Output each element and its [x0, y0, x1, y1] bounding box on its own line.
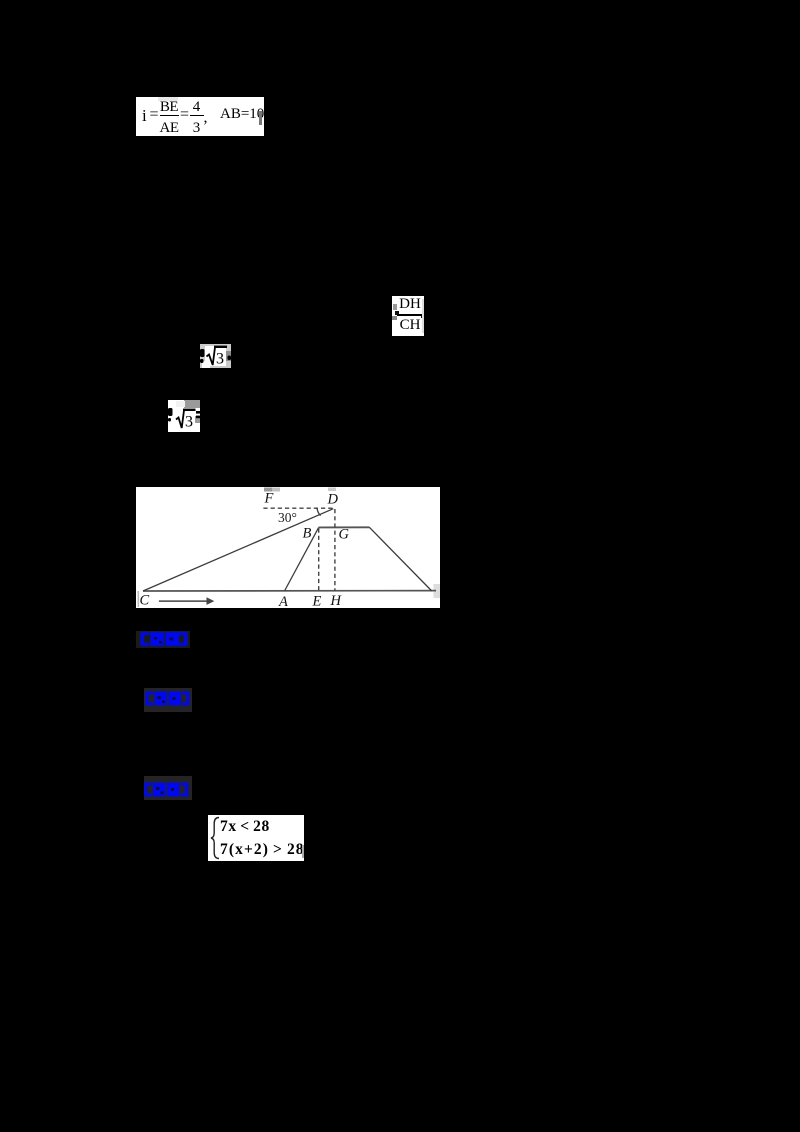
- svg-text:H: H: [330, 593, 343, 608]
- svg-text:E: E: [312, 594, 322, 609]
- gray bar left edge: [138, 591, 140, 607]
- dashed vertical B-E: [318, 529, 320, 592]
- svg-text:3: 3: [216, 351, 224, 368]
- blue tag 2 (fen-xi): [144, 688, 192, 712]
- slope line C to D: [143, 509, 333, 591]
- fraction DH/CH: [392, 296, 424, 336]
- baseline C to right: [143, 590, 436, 592]
- trapezoid right side: [369, 527, 431, 591]
- dashed vertical D-H: [334, 509, 336, 591]
- radical 6-root-3 box (upper): [200, 344, 231, 368]
- svg-text:B: B: [303, 526, 312, 542]
- svg-text:C: C: [140, 593, 150, 609]
- dashed F-D horizontal: [263, 507, 335, 509]
- radical 6-root-3 box (lower): [168, 400, 200, 432]
- gray patch above F: [264, 488, 272, 492]
- svg-text:D: D: [327, 492, 339, 508]
- arrow under C: [159, 600, 208, 602]
- gray patch right baseline end: [434, 584, 441, 598]
- inequality system: [208, 815, 304, 861]
- trapezoid left side A-B: [285, 527, 319, 591]
- svg-text:3: 3: [185, 414, 193, 431]
- blue tag 3 (xiang-jie): [144, 776, 192, 800]
- svg-text:30°: 30°: [278, 510, 297, 525]
- gray patch above D: [328, 488, 336, 492]
- blue tag 1 (da-an): [136, 628, 192, 649]
- trapezoid top edge: [319, 526, 370, 528]
- geometry figure: [136, 487, 440, 608]
- formula box i=BE/AE=4/3, AB=10: [136, 97, 264, 136]
- svg-text:F: F: [264, 491, 274, 507]
- angle arc at D: [317, 508, 321, 515]
- svg-text:A: A: [278, 594, 288, 608]
- svg-text:G: G: [339, 527, 350, 543]
